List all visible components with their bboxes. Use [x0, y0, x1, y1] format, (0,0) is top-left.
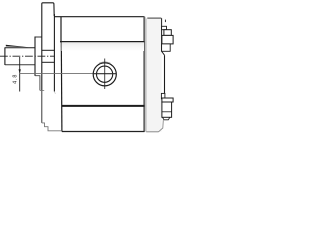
housing upper split line (horizontal) [60, 41, 144, 43]
bottom port fitting: stub [161, 93, 165, 98]
side port bore circle (inner) [97, 66, 113, 82]
seal lip outline (lower right of shaft) [35, 76, 40, 91]
seal housing top line [35, 36, 42, 38]
rear cover chamfer (bottom-right corner step) [159, 120, 164, 132]
port vertical centreline [104, 59, 106, 90]
rear cover right edge (dark, upper) [161, 18, 163, 51]
rear cover (light shaded plate behind pump body) [146, 18, 161, 132]
pump body (gear housing outline) [54, 17, 145, 132]
side port boss circle (outer) [93, 63, 116, 86]
top port fitting: step to boss [162, 51, 165, 55]
bottom port fitting: internal split line [162, 111, 172, 113]
dimension tick near flange foot [40, 90, 44, 92]
bottom port fitting: bottom chamfer [163, 117, 170, 120]
top port fitting: shoulder [162, 44, 171, 51]
shaft centerline (dash-dot) [0, 55, 54, 57]
flange mid jog (right edge, faint) [54, 92, 55, 94]
port centre dimension line (long horizontal) [20, 73, 117, 75]
shaft key (tapered bar on top) [6, 45, 29, 47]
bottom port fitting: hex nut [162, 98, 173, 102]
shaft end cap [4, 47, 6, 65]
shaft top edge [5, 47, 35, 49]
port horizontal centreline (dark segment through circle) [93, 73, 116, 75]
svg-text:4.8: 4.8 [12, 74, 18, 84]
top port fitting: small tick [164, 20, 166, 23]
front cover / housing split line (vertical, upper) [60, 17, 62, 42]
seal housing face (vertical) [34, 37, 36, 76]
port boss edge between fittings [164, 55, 166, 94]
housing lower split line (horizontal) [62, 105, 145, 107]
dimension extension line (vertical) [19, 57, 21, 92]
top port fitting: stub [162, 26, 167, 29]
front cover / housing split line (vertical, lower) [60, 42, 63, 132]
top port fitting: cap [164, 30, 171, 36]
dimension arrowhead [19, 69, 21, 73]
mounting flange (edge view) [42, 3, 55, 123]
flange bottom step outline [42, 123, 62, 131]
bottom port fitting: body block [162, 102, 172, 117]
shaft bottom edge [5, 64, 35, 66]
top port fitting: hex nut [162, 35, 173, 44]
flange shaft-hole lines [42, 49, 54, 51]
thread arc (top partial) [99, 62, 110, 63]
